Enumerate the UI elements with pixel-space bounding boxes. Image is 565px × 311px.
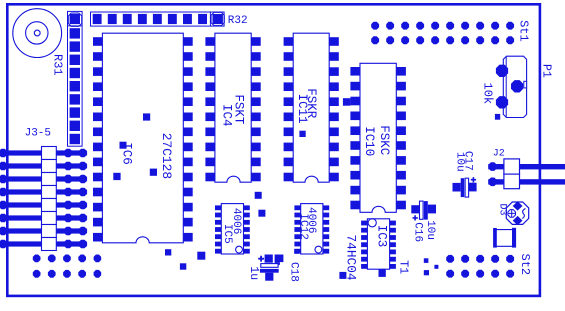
St2 pad bottom 3 — [476, 270, 484, 278]
component X1 right terminal — [512, 228, 516, 248]
D3 top pad diamond — [513, 201, 523, 210]
via V6 — [180, 263, 186, 269]
wire J3-5 row 7 — [0, 228, 87, 233]
IC4 pin pad left row 7 — [205, 128, 215, 137]
pad grid bottom 4 — [78, 270, 86, 278]
IC10 pin pad right row 8 — [396, 171, 406, 180]
wire J3-5 row 3 — [0, 176, 87, 181]
IC10 pin pad left row 2 — [350, 82, 360, 91]
IC5 pin pad right row 7 — [244, 249, 250, 254]
capacitor C17 left pad — [453, 183, 461, 192]
svg-text:10u: 10u — [424, 220, 436, 240]
IC4 pin pad left row 6 — [205, 113, 215, 122]
svg-text:1u: 1u — [247, 266, 260, 280]
pin 1 octagon cell — [68, 13, 81, 26]
IC5 pin pad left row 7 — [215, 249, 221, 254]
St1 pad bottom 7 — [461, 36, 469, 44]
resistor network R32 outline — [91, 12, 225, 26]
IC10 pin pad left row 8 — [350, 171, 360, 180]
C17 right pad — [469, 183, 477, 192]
J3-5 row 1 pad left — [0, 149, 7, 158]
St1 pad bottom 8 — [476, 36, 484, 44]
R32 pad 1 — [93, 14, 102, 24]
wire J2 pin 1 — [488, 164, 565, 169]
IC3 pin pad right row 4 — [390, 242, 396, 247]
IC3 pin pad left row 7 — [361, 264, 367, 269]
IC5 pin pad right row 3 — [244, 220, 250, 225]
IC10 pin pad right row 5 — [396, 126, 406, 135]
D3 left marking cross — [508, 210, 516, 218]
J3-5 housing square 7 — [42, 225, 57, 238]
IC6 pin pad right row 10 — [183, 173, 192, 182]
IC4 pin pad right row 4 — [251, 82, 261, 91]
J3-5 row 5 pad end — [79, 201, 88, 210]
IC5 pin pad right row 4 — [244, 227, 250, 232]
via V7 — [197, 252, 205, 260]
C18 top pad — [265, 255, 273, 263]
J3-5 row 4 pad left — [0, 188, 7, 197]
J3-5 row 7 pad mid — [64, 227, 73, 236]
IC3 pin pad left row 1 — [361, 221, 367, 226]
IC6 pin 10 pad left — [93, 173, 102, 182]
J3-5 row 3 pad left — [0, 175, 7, 184]
IC6 pin 7 pad left — [93, 128, 102, 137]
svg-text:IC10: IC10 — [362, 126, 376, 156]
via V15 — [424, 258, 429, 263]
IC5 pin1 circle — [236, 246, 243, 253]
J3-5 row 5 pad mid — [64, 201, 73, 210]
SIL pad 3 — [70, 41, 80, 51]
IC6 pin pad right row 8 — [183, 143, 192, 152]
svg-text:IC12: IC12 — [297, 213, 309, 239]
IC6 pin 9 pad left — [93, 158, 102, 167]
IC12 pin pad left row 1 — [294, 205, 300, 210]
pad grid bottom 3 — [63, 270, 71, 278]
St2 pad top 3 — [476, 255, 484, 263]
IC6 pin pad right row 11 — [183, 188, 192, 197]
IC6 pin 14 pad left — [93, 233, 102, 242]
IC11 pin pad right row 3 — [329, 67, 339, 76]
pad grid bottom 5 — [94, 270, 102, 278]
IC10 pin pad left row 6 — [350, 141, 360, 150]
IC6 pin pad right row 2 — [183, 52, 192, 61]
C16 filled plate — [424, 201, 428, 220]
St1 pad top 6 — [446, 22, 454, 30]
IC6 pin 6 pad left — [93, 113, 102, 122]
svg-text:27C128: 27C128 — [159, 133, 174, 179]
pad grid top 2 — [48, 255, 56, 263]
IC6 pin 13 pad left — [93, 218, 102, 227]
via V4 — [150, 169, 157, 176]
C16 plus sign — [413, 215, 418, 220]
IC11 pin pad left row 1 — [284, 37, 294, 46]
IC6 pin pad right row 6 — [183, 113, 192, 122]
J3-5 housing square 5 — [42, 199, 57, 212]
IC4 pin pad right row 3 — [251, 67, 261, 76]
IC6 pin 5 pad left — [93, 97, 102, 106]
pad grid top 4 — [78, 255, 86, 263]
IC6 pin 1 pad left — [93, 37, 102, 46]
D3 right marking hook — [522, 209, 525, 219]
St1 pad bottom 5 — [431, 36, 439, 44]
IC12 pin pad right row 3 — [323, 220, 329, 225]
wire J3-5 row 5 — [0, 202, 87, 207]
J2 housing square 1 — [504, 159, 520, 174]
via V12 — [339, 272, 346, 279]
IC6 pin pad right row 13 — [183, 218, 192, 227]
IC U4 FSKT body — [215, 33, 251, 182]
C17 plus sign — [471, 177, 476, 182]
IC5 pin pad left row 2 — [215, 213, 221, 218]
wire J2 pin 2 — [488, 179, 565, 184]
St1 pad bottom 2 — [386, 36, 394, 44]
St1 pad top 5 — [431, 22, 439, 30]
IC3 pin pad left row 6 — [361, 257, 367, 262]
via V16 — [424, 270, 429, 275]
svg-text:C18: C18 — [288, 262, 300, 282]
St2 pad bottom 2 — [461, 270, 469, 278]
IC6 pin pad right row 4 — [183, 82, 192, 91]
IC10 pin pad right row 1 — [396, 67, 406, 76]
P1 pad 1 — [496, 65, 508, 77]
St1 pad bottom 1 — [371, 36, 379, 44]
connector strip SIL-10 outline — [68, 11, 83, 146]
IC11 pin pad left row 7 — [284, 128, 294, 137]
wire J3-5 row 1 — [0, 150, 87, 155]
IC4 pin pad right row 6 — [251, 113, 261, 122]
pad grid top 3 — [63, 255, 71, 263]
trimmer R31 body — [13, 9, 62, 58]
St1 pad bottom 3 — [401, 36, 409, 44]
IC11 pin pad left row 9 — [284, 158, 294, 167]
St2 pad top 5 — [506, 255, 514, 263]
J3-5 row 4 pad end — [79, 188, 88, 197]
IC4 pin pad left row 10 — [205, 173, 215, 182]
SIL pad 9 — [70, 121, 80, 131]
svg-text:IC11: IC11 — [295, 94, 309, 124]
St1 pad top 10 — [506, 22, 514, 30]
IC11 pin pad left row 8 — [284, 143, 294, 152]
St1 pad top 9 — [491, 22, 499, 30]
IC5 pin pad right row 1 — [244, 205, 250, 210]
J3-5 housing square 8 — [42, 238, 57, 251]
St2 pad bottom 1 — [446, 270, 454, 278]
svg-text:T1: T1 — [396, 260, 409, 274]
IC4 pin pad right row 8 — [251, 143, 261, 152]
P1 inner edge line — [505, 56, 507, 117]
IC4 pin pad right row 7 — [251, 128, 261, 137]
St1 pad bottom 10 — [506, 36, 514, 44]
pad grid top 1 — [33, 255, 41, 263]
via V11 — [299, 131, 305, 137]
R32 pad 8 — [198, 14, 207, 24]
svg-text:IC5: IC5 — [221, 224, 233, 244]
C18 outlined plate — [261, 264, 278, 268]
IC3 pin pad left row 3 — [361, 235, 367, 240]
svg-text:10k: 10k — [481, 83, 495, 105]
pad grid bottom 2 — [48, 270, 56, 278]
C18 right pad — [275, 255, 284, 263]
IC IC12 body — [301, 204, 323, 254]
IC11 pin pad left row 10 — [284, 173, 294, 182]
IC3 pin pad right row 5 — [390, 250, 396, 255]
R32 pad 3 — [123, 14, 132, 24]
IC6 pin 2 pad left — [93, 52, 102, 61]
svg-text:10u: 10u — [454, 152, 466, 172]
St1 pad top 4 — [416, 22, 424, 30]
IC10 pin pad right row 6 — [396, 141, 406, 150]
IC11 pin pad right row 10 — [329, 173, 339, 182]
C17 filled plate — [461, 178, 465, 197]
SIL pad 10 — [70, 134, 80, 144]
R32 pad 2 — [108, 14, 117, 24]
via V10 — [343, 98, 351, 106]
IC12 pin pad left row 5 — [294, 234, 300, 239]
IC10 pin pad left row 1 — [350, 67, 360, 76]
IC U6 27C128 body — [102, 33, 183, 243]
IC10 pin pad left row 10 — [350, 201, 360, 210]
IC3 pin pad left row 5 — [361, 250, 367, 255]
IC10 pin pad left row 9 — [350, 186, 360, 195]
IC U11 FSKR body — [293, 33, 329, 182]
IC4 pin pad right row 5 — [251, 97, 261, 106]
R32 pin octagon cell — [209, 12, 211, 26]
P1 pad 3 — [496, 96, 508, 108]
J3-5 row 7 pad end — [79, 227, 88, 236]
R32 pad 7 — [183, 14, 192, 24]
R32 pad 4 — [138, 14, 147, 24]
via V14 — [294, 249, 299, 254]
IC10 pin pad left row 7 — [350, 156, 360, 165]
svg-text:R31: R31 — [50, 54, 64, 76]
IC3 pin pad right row 2 — [390, 228, 396, 233]
J3-5 row 2 pad mid — [64, 162, 73, 171]
pad grid bottom 1 — [33, 270, 41, 278]
IC6 pin pad right row 14 — [183, 233, 192, 242]
D3 bottom pad diamond — [513, 216, 523, 225]
J3-5 row 7 pad left — [0, 227, 7, 236]
IC4 pin pad left row 3 — [205, 67, 215, 76]
St2 pad top 2 — [461, 255, 469, 263]
IC10 pin pad right row 10 — [396, 201, 406, 210]
St2 pad bottom 5 — [506, 270, 514, 278]
St1 pad top 1 — [371, 22, 379, 30]
J3-5 row 6 pad mid — [64, 214, 73, 223]
component X1 left terminal — [493, 228, 497, 248]
IC U10 FSKC body — [360, 63, 396, 212]
IC11 pin pad right row 5 — [329, 97, 339, 106]
St2 pad top 4 — [491, 255, 499, 263]
J3-5 row 6 pad end — [79, 214, 88, 223]
St1 pad bottom 6 — [446, 36, 454, 44]
IC4 pin pad right row 1 — [251, 37, 261, 46]
IC11 pin pad right row 4 — [329, 82, 339, 91]
St2 pad top 1 — [446, 255, 454, 263]
SIL pad 4 — [70, 55, 80, 65]
J3-5 housing square 1 — [42, 147, 57, 160]
svg-text:R32: R32 — [228, 15, 248, 27]
IC10 pin pad left row 4 — [350, 112, 360, 121]
St1 pad bottom 4 — [416, 36, 424, 44]
IC5 pin pad left row 6 — [215, 242, 221, 247]
IC11 pin pad left row 6 — [284, 113, 294, 122]
IC10 pin pad right row 4 — [396, 112, 406, 121]
wire J3-5 row 2 — [0, 163, 87, 168]
J2 pin 2 pad octagon — [488, 178, 497, 187]
IC12 pin pad right row 4 — [323, 227, 329, 232]
IC4 pin pad left row 1 — [205, 37, 215, 46]
IC11 pin pad right row 9 — [329, 158, 339, 167]
J3-5 row 8 pad end — [79, 240, 88, 249]
capacitor C16 left pad — [411, 205, 419, 213]
IC11 pin pad right row 2 — [329, 52, 339, 61]
R32 pad 6 — [168, 14, 177, 24]
IC12 pin pad right row 5 — [323, 234, 329, 239]
IC IC3 body — [367, 219, 389, 269]
J2 pin 1 pad octagon — [488, 162, 497, 171]
IC11 pin pad left row 2 — [284, 52, 294, 61]
IC11 pin pad left row 3 — [284, 67, 294, 76]
SIL pad 5 — [70, 68, 80, 78]
transistor T1 pad below IC3 — [379, 269, 386, 277]
wire J3-5 row 4 — [0, 189, 87, 194]
IC12 pin1 circle — [315, 246, 322, 253]
IC12 pin pad right row 6 — [323, 242, 329, 247]
IC12 pin pad left row 4 — [294, 227, 300, 232]
IC6 pin pad right row 7 — [183, 128, 192, 137]
IC12 pin pad left row 7 — [294, 249, 300, 254]
IC4 pin pad left row 8 — [205, 143, 215, 152]
IC11 pin pad right row 8 — [329, 143, 339, 152]
IC3 pin pad left row 4 — [361, 242, 367, 247]
svg-text:IC3: IC3 — [374, 225, 388, 248]
IC12 pin pad left row 2 — [294, 213, 300, 218]
IC5 pin pad left row 5 — [215, 234, 221, 239]
wire J3-5 row 8 — [0, 241, 87, 246]
trimmer P1 body — [503, 56, 526, 117]
IC3 pin pad right row 6 — [390, 257, 396, 262]
svg-text:IC4: IC4 — [220, 104, 234, 127]
IC3 pin pad right row 7 — [390, 264, 396, 269]
SIL pad 2 — [70, 28, 80, 38]
IC IC5 body — [221, 204, 243, 254]
IC11 pin pad left row 4 — [284, 82, 294, 91]
svg-text:D3: D3 — [496, 204, 507, 216]
J3-5 row 6 pad left — [0, 214, 7, 223]
svg-text:St2: St2 — [518, 254, 532, 276]
P1 wiper pad — [511, 80, 523, 92]
J3-5 row 1 pad mid — [64, 149, 73, 158]
R32 pad 5 — [153, 14, 162, 24]
IC6 pin pad right row 3 — [183, 67, 192, 76]
J3-5 row 2 pad left — [0, 162, 7, 171]
St1 pad top 8 — [476, 22, 484, 30]
IC6 pin pad right row 9 — [183, 158, 192, 167]
J3-5 housing square 3 — [42, 173, 57, 186]
IC4 pin pad left row 5 — [205, 97, 215, 106]
IC12 pin pad right row 1 — [323, 205, 329, 210]
St1 pad bottom 9 — [491, 36, 499, 44]
IC11 pin pad right row 7 — [329, 128, 339, 137]
C16 right pad — [428, 205, 436, 214]
C16 outlined plate — [420, 201, 424, 219]
pin 1 pad — [70, 14, 80, 24]
IC11 pin pad right row 6 — [329, 113, 339, 122]
svg-text:P1: P1 — [540, 64, 553, 78]
svg-text:J3-5: J3-5 — [25, 127, 51, 139]
IC10 pin pad left row 5 — [350, 126, 360, 135]
svg-text:St1: St1 — [516, 20, 530, 42]
IC6 pin 4 pad left — [93, 82, 102, 91]
IC6 pin pad right row 1 — [183, 37, 192, 46]
IC6 pin 12 pad left — [93, 203, 102, 212]
IC3 pin pad right row 3 — [390, 235, 396, 240]
svg-text:C16: C16 — [411, 222, 423, 242]
St1 pad top 3 — [401, 22, 409, 30]
IC3 pin1 circle — [368, 219, 376, 227]
IC6 pin pad right row 12 — [183, 203, 192, 212]
J3-5 row 1 pad end — [79, 149, 88, 158]
IC5 pin pad left row 1 — [215, 205, 221, 210]
svg-text:J2: J2 — [493, 149, 505, 160]
component X1 outline — [495, 230, 514, 247]
IC5 pin pad right row 2 — [244, 213, 250, 218]
IC12 pin pad right row 7 — [323, 249, 329, 254]
IC4 pin pad left row 9 — [205, 158, 215, 167]
IC4 pin pad right row 9 — [251, 158, 261, 167]
via V5 — [165, 249, 171, 255]
IC3 pin pad left row 2 — [361, 228, 367, 233]
via V9 — [258, 210, 265, 217]
P1 right notch — [524, 81, 527, 88]
IC10 pin pad left row 3 — [350, 97, 360, 106]
diode D3 body octagon — [506, 202, 528, 224]
J3-5 housing square 6 — [42, 212, 57, 225]
IC12 pin pad left row 3 — [294, 220, 300, 225]
IC4 pin pad right row 10 — [251, 173, 261, 182]
J3-5 row 3 pad mid — [64, 175, 73, 184]
IC10 pin pad right row 9 — [396, 186, 406, 195]
St1 pad top 7 — [461, 22, 469, 30]
J3-5 row 4 pad mid — [64, 188, 73, 197]
IC5 pin pad right row 5 — [244, 234, 250, 239]
IC6 pin 3 pad left — [93, 67, 102, 76]
IC6 pin 8 pad left — [93, 143, 102, 152]
IC12 pin pad right row 2 — [323, 213, 329, 218]
IC5 pin pad left row 4 — [215, 227, 221, 232]
J3-5 row 2 pad end — [79, 162, 88, 171]
J3-5 row 8 pad mid — [64, 240, 73, 249]
IC12 pin pad left row 6 — [294, 242, 300, 247]
via V8 — [255, 192, 262, 199]
via V2 — [120, 142, 127, 149]
J3-5 housing square 2 — [42, 160, 57, 173]
IC6 pin 11 pad left — [93, 188, 102, 197]
capacitor C18 plus sign — [258, 256, 264, 262]
IC4 pin pad left row 4 — [205, 82, 215, 91]
J3-5 row 5 pad left — [0, 201, 7, 210]
via V1 — [143, 113, 150, 120]
svg-text:FSKC: FSKC — [377, 125, 391, 155]
SIL pad 7 — [70, 94, 80, 104]
IC3 pin pad right row 1 — [390, 221, 396, 226]
IC4 pin pad right row 2 — [251, 52, 261, 61]
IC11 pin pad right row 1 — [329, 37, 339, 46]
SIL pad 8 — [70, 107, 80, 117]
IC5 pin pad right row 6 — [244, 242, 250, 247]
J3-5 row 3 pad end — [79, 175, 88, 184]
IC10 pin pad right row 7 — [396, 156, 406, 165]
